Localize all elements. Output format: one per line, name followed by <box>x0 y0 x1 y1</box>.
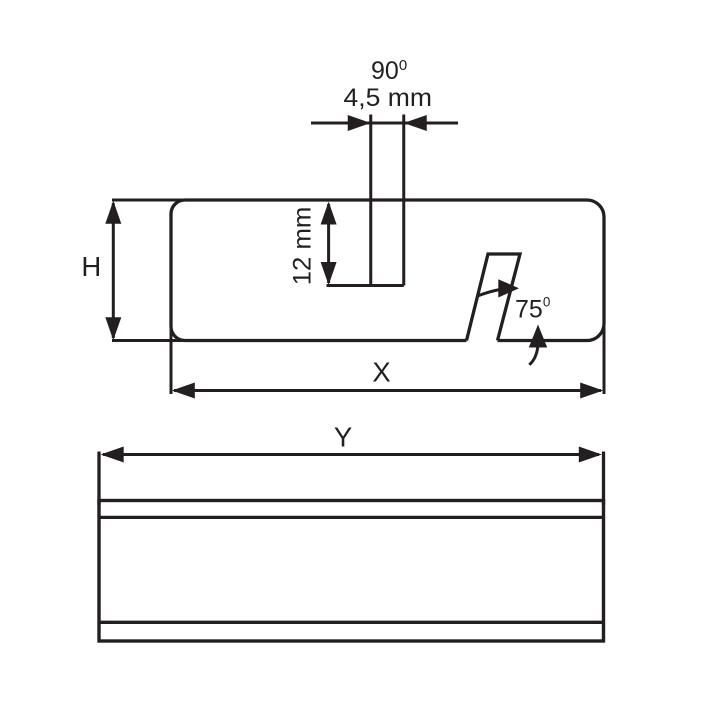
arrowhead 4,5 mm right <box>404 115 427 131</box>
angled slot 75 degrees <box>467 254 521 341</box>
side view outline <box>171 200 604 341</box>
slot bottom line <box>327 284 404 287</box>
front view outline <box>99 501 604 642</box>
extension line top-left <box>112 199 190 202</box>
arrowhead H bottom <box>105 317 121 340</box>
slot left line <box>369 115 372 286</box>
extension line front left <box>97 452 100 506</box>
curved arrowhead bottom edge <box>529 325 547 348</box>
arrowhead 4,5 mm left <box>348 115 371 131</box>
arrowhead X left <box>172 383 195 399</box>
arrowhead H top <box>105 201 121 224</box>
extension line left vertical <box>170 325 173 394</box>
dimension line X <box>174 389 601 392</box>
svg-text:750: 750 <box>515 295 550 324</box>
leader arrowhead 75 degrees <box>498 279 519 297</box>
svg-text:4,5 mm: 4,5 mm <box>344 84 433 112</box>
arrowhead X right <box>580 383 603 399</box>
extension line right vertical <box>603 325 606 394</box>
curved arrow bottom edge <box>529 347 538 365</box>
extension line front right <box>602 452 605 506</box>
front view inner line bottom <box>99 621 604 624</box>
svg-text:X: X <box>372 357 390 388</box>
svg-text:H: H <box>81 251 101 282</box>
arrowhead Y right <box>579 447 602 463</box>
dimension line Y <box>103 453 599 456</box>
dimension line 12 mm <box>327 204 330 283</box>
svg-text:900: 900 <box>371 57 407 85</box>
arrowhead Y left <box>101 447 124 463</box>
arrowhead 12 mm top <box>321 202 337 225</box>
svg-text:12 mm: 12 mm <box>289 207 317 286</box>
svg-text:Y: Y <box>334 422 352 453</box>
dimension line 4,5 mm <box>311 122 458 125</box>
extension line bottom-left <box>112 339 190 342</box>
front view inner line top <box>99 516 604 519</box>
dimension line H <box>112 203 115 338</box>
leader arrow 75 degrees curve <box>478 290 501 297</box>
arrowhead 12 mm bottom <box>321 262 337 285</box>
slot right line <box>402 115 405 286</box>
